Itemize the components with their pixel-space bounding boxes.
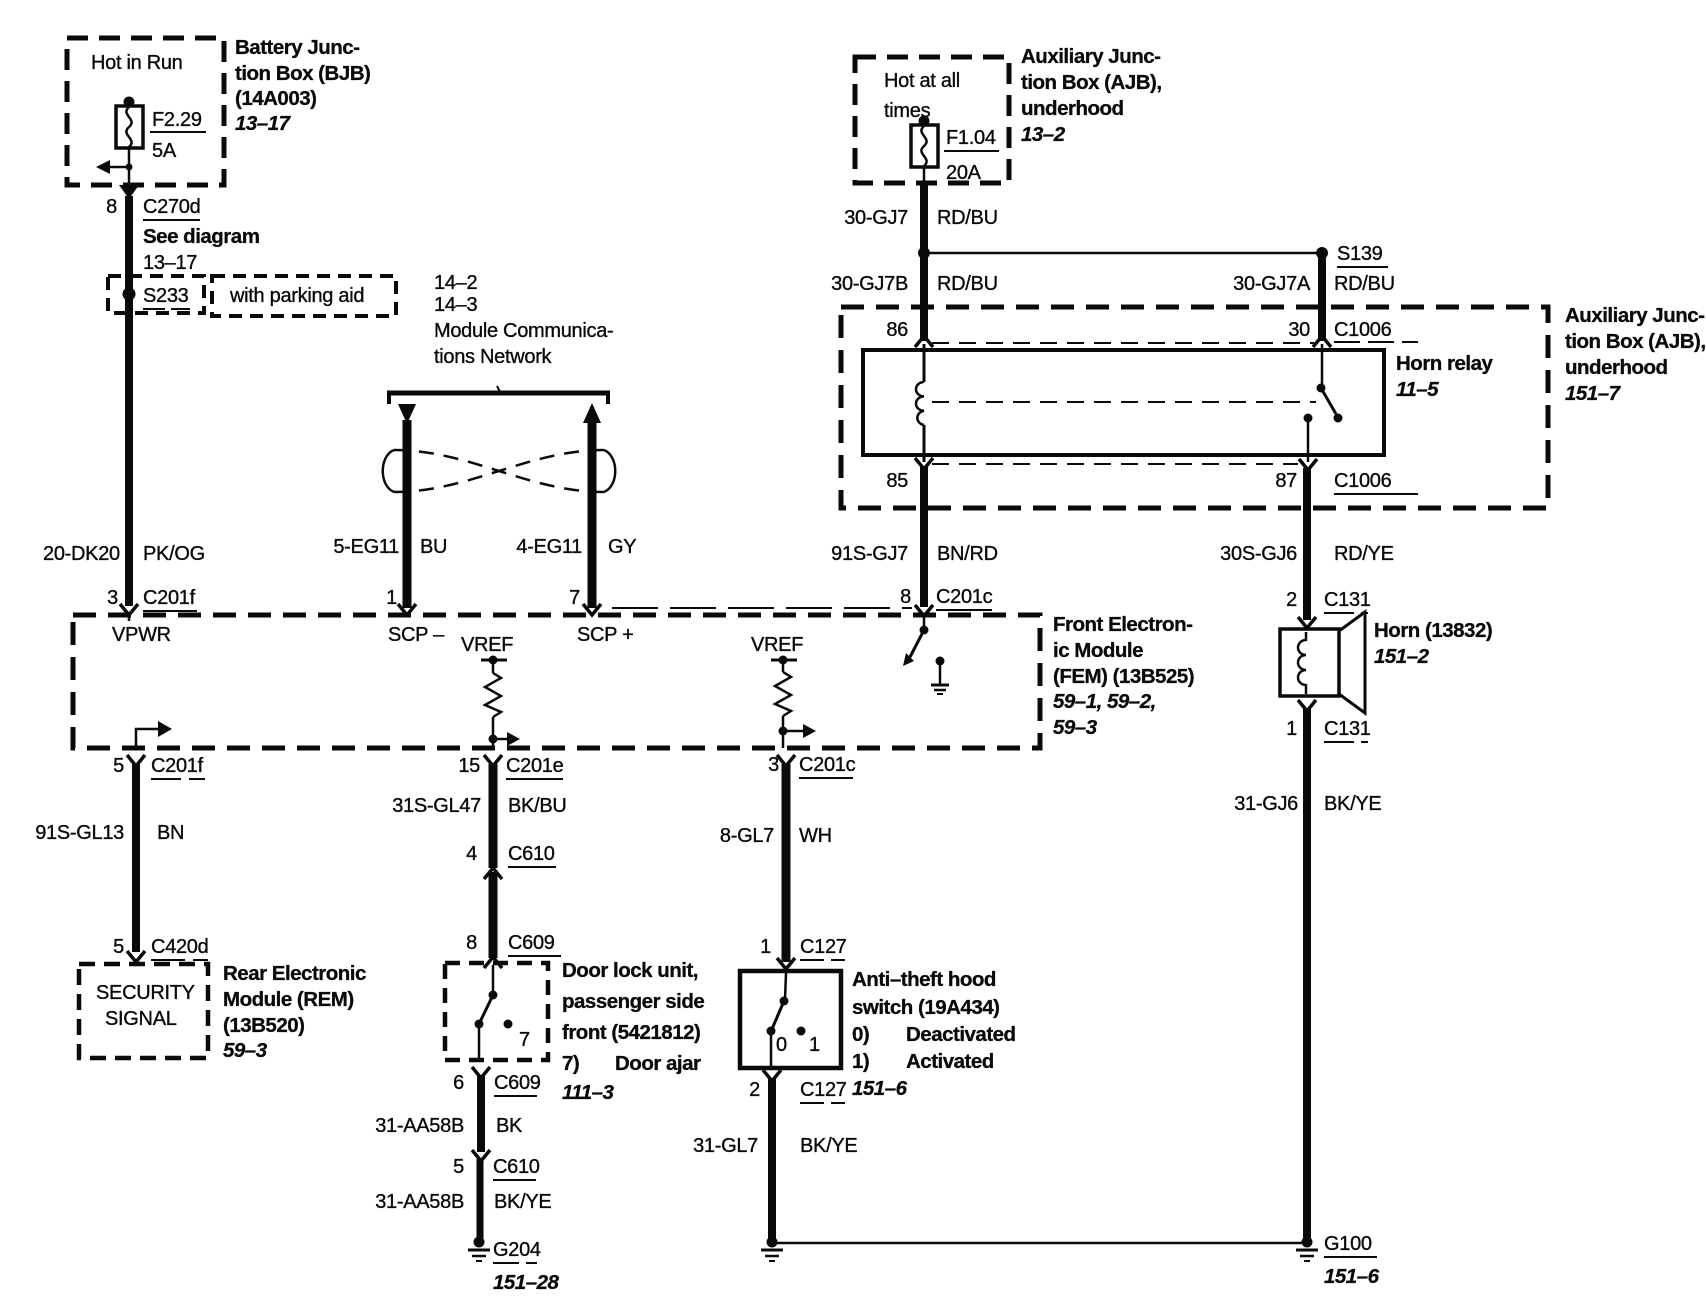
rear electronic module REM dashed box: [79, 964, 208, 1058]
svg-text:8-GL7: 8-GL7: [720, 825, 774, 847]
chevron down pin 85: [915, 458, 933, 469]
wire 31-GJ6 BK/YE: [1303, 709, 1311, 1240]
svg-text:Activated: Activated: [906, 1050, 994, 1073]
svg-text:Rear Electronic: Rear Electronic: [223, 962, 366, 985]
svg-text:Hot at all: Hot at all: [884, 70, 960, 92]
svg-text:59–1, 59–2,: 59–1, 59–2,: [1053, 690, 1156, 713]
svg-text:2: 2: [749, 1079, 760, 1101]
internal output arrow right: [779, 727, 788, 736]
svg-text:tion Box (BJB): tion Box (BJB): [235, 62, 370, 85]
svg-text:3: 3: [107, 587, 118, 609]
svg-text:RD/YE: RD/YE: [1334, 543, 1394, 565]
svg-text:59–3: 59–3: [1053, 716, 1098, 739]
svg-text:VREF: VREF: [461, 634, 513, 656]
svg-text:7): 7): [562, 1052, 579, 1075]
svg-text:F1.04: F1.04: [946, 127, 996, 149]
svg-text:SCP +: SCP +: [577, 624, 634, 646]
splice junction node: [918, 247, 930, 259]
chevron into hood switch pin 1: [777, 958, 795, 969]
svg-text:5-EG11: 5-EG11: [333, 536, 399, 558]
svg-text:BN: BN: [157, 822, 184, 844]
svg-text:111–3: 111–3: [562, 1081, 615, 1104]
twisted pair symbol: [383, 450, 616, 492]
svg-text:C131: C131: [1324, 589, 1371, 611]
svg-text:F2.29: F2.29: [152, 109, 202, 131]
svg-text:151–28: 151–28: [493, 1271, 560, 1294]
svg-text:Auxiliary Junc-: Auxiliary Junc-: [1565, 304, 1704, 327]
wire 31S-GL47 BK/BU: [489, 764, 498, 868]
FEM internal stub to pin 5 with arrow: [136, 729, 158, 748]
svg-text:RD/BU: RD/BU: [1334, 273, 1395, 295]
FEM internal ground: [931, 657, 949, 695]
ground at hood switch: [761, 1237, 783, 1262]
svg-text:C1006: C1006: [1334, 470, 1392, 492]
svg-text:8: 8: [466, 932, 477, 954]
svg-text:5: 5: [113, 755, 124, 777]
svg-text:C610: C610: [508, 843, 555, 865]
svg-text:15: 15: [458, 755, 480, 777]
svg-text:Module Communica-: Module Communica-: [434, 320, 613, 342]
resistor VREF pull-up right: [771, 656, 797, 749]
wire 8-GL7 WH: [782, 764, 791, 962]
FEM internal switch from pin 8: [920, 626, 929, 635]
relay coil linkage dashed: [932, 401, 1316, 403]
chevron into FEM pin 1: [398, 604, 416, 615]
relay contact to pin 87: [1304, 414, 1313, 423]
svg-text:151–6: 151–6: [852, 1077, 908, 1100]
svg-text:Door ajar: Door ajar: [615, 1052, 701, 1075]
svg-text:ic Module: ic Module: [1053, 639, 1143, 662]
svg-text:C131: C131: [1324, 718, 1371, 740]
svg-text:C201c: C201c: [799, 754, 856, 776]
svg-text:(13B520): (13B520): [223, 1014, 304, 1037]
svg-text:VREF: VREF: [751, 634, 803, 656]
svg-text:Battery Junc-: Battery Junc-: [235, 36, 360, 59]
svg-text:See diagram: See diagram: [143, 225, 259, 248]
svg-text:14–2: 14–2: [434, 272, 477, 294]
svg-text:31S-GL47: 31S-GL47: [392, 795, 481, 817]
connector arrow into wire at pin 8: [119, 185, 139, 199]
svg-text:G100: G100: [1324, 1233, 1372, 1255]
splice S139: [1316, 247, 1328, 259]
horn relay solid box: [863, 350, 1384, 455]
chevron out of hood switch pin 2: [763, 1070, 781, 1081]
svg-text:underhood: underhood: [1021, 97, 1124, 120]
chevron into FEM pin 3: [120, 604, 138, 615]
svg-text:0: 0: [776, 1034, 787, 1056]
relay internal dashed link upper: [932, 342, 1314, 344]
svg-text:BK/YE: BK/YE: [1324, 793, 1381, 815]
wire 20-DK20 left column: [125, 196, 133, 606]
svg-text:BK/BU: BK/BU: [508, 795, 567, 817]
svg-text:151–7: 151–7: [1565, 382, 1622, 405]
svg-text:1): 1): [852, 1050, 869, 1073]
svg-text:1: 1: [760, 936, 771, 958]
svg-text:13–17: 13–17: [235, 112, 292, 135]
chevron out of FEM pin 3: [777, 755, 795, 766]
svg-text:switch (19A434): switch (19A434): [852, 996, 999, 1019]
svg-text:S139: S139: [1337, 243, 1383, 265]
network bus bar bracket: [387, 386, 610, 404]
relay switch arm: [1321, 388, 1336, 414]
svg-text:1: 1: [1286, 718, 1297, 740]
svg-text:C201c: C201c: [936, 586, 993, 608]
svg-text:8: 8: [106, 196, 117, 218]
chevron up pin 86: [915, 336, 933, 347]
chevron into C610 pin 5: [472, 1150, 490, 1161]
svg-text:SCP –: SCP –: [388, 624, 445, 646]
svg-text:BU: BU: [420, 536, 447, 558]
svg-text:tion Box (AJB),: tion Box (AJB),: [1565, 330, 1706, 353]
svg-text:tions Network: tions Network: [434, 346, 553, 368]
svg-text:BK: BK: [496, 1115, 523, 1137]
svg-text:with parking aid: with parking aid: [229, 285, 364, 307]
svg-text:2: 2: [1286, 589, 1297, 611]
svg-text:30S-GJ6: 30S-GJ6: [1220, 543, 1297, 565]
svg-text:GY: GY: [608, 536, 636, 558]
svg-text:VPWR: VPWR: [112, 624, 171, 646]
auxiliary junction box fuse dashed enclosure: [855, 57, 1009, 183]
wire 31-AA58B BK: [477, 1076, 485, 1152]
svg-text:151–2: 151–2: [1374, 645, 1430, 668]
wire 91S-GL13 BN: [132, 764, 140, 952]
svg-text:30-GJ7: 30-GJ7: [844, 207, 908, 229]
svg-text:91S-GJ7: 91S-GJ7: [831, 543, 908, 565]
svg-text:Hot in Run: Hot in Run: [91, 52, 183, 74]
svg-text:86: 86: [886, 319, 908, 341]
svg-text:C270d: C270d: [143, 196, 200, 218]
chevron out of FEM pin 5: [127, 755, 145, 766]
arrow tap to left inside BJB: [106, 166, 129, 169]
svg-text:30-GJ7B: 30-GJ7B: [831, 273, 908, 295]
ground G100: [1296, 1237, 1318, 1262]
door lock switch contacts: [475, 965, 513, 1060]
svg-text:31-AA58B: 31-AA58B: [375, 1191, 464, 1213]
svg-text:front (5421812): front (5421812): [562, 1021, 700, 1044]
ground G204: [468, 1237, 490, 1262]
svg-text:WH: WH: [799, 825, 832, 847]
svg-text:7: 7: [519, 1029, 530, 1051]
svg-text:31-GJ6: 31-GJ6: [1234, 793, 1298, 815]
svg-text:tion Box (AJB),: tion Box (AJB),: [1021, 71, 1162, 94]
svg-text:1: 1: [809, 1034, 820, 1056]
svg-text:11–5: 11–5: [1396, 378, 1439, 401]
svg-text:8: 8: [900, 586, 911, 608]
svg-text:Front Electron-: Front Electron-: [1053, 613, 1192, 636]
chevron down pin 87: [1299, 459, 1317, 470]
ground bus wire: [772, 1242, 1302, 1245]
svg-text:13–17: 13–17: [143, 252, 197, 274]
wire 30S-GJ6 RD/YE: [1303, 468, 1311, 620]
chevron out of door lock pin 6: [472, 1067, 490, 1078]
wire 4-EG11 SCP+ with up arrow: [583, 403, 601, 423]
svg-text:13–2: 13–2: [1021, 123, 1066, 146]
svg-text:5: 5: [113, 936, 124, 958]
chevron out of horn pin 1: [1298, 700, 1316, 711]
relay internal dashed link lower: [932, 463, 1298, 465]
svg-text:59–3: 59–3: [223, 1039, 268, 1062]
svg-text:C201f: C201f: [151, 755, 204, 777]
svg-text:C201f: C201f: [143, 587, 196, 609]
fuse F2.29 5A: [116, 97, 143, 197]
chevron up into C610 pin 4: [484, 868, 502, 879]
chevron into FEM pin 7: [583, 604, 601, 615]
svg-text:Horn (13832): Horn (13832): [1374, 619, 1492, 642]
relay coil: [916, 344, 924, 462]
svg-text:C609: C609: [494, 1072, 541, 1094]
door lock unit dashed box: [445, 963, 548, 1060]
svg-text:20-DK20: 20-DK20: [43, 543, 120, 565]
chevron out of FEM pin 15: [484, 755, 502, 766]
wire 91S-GJ7 BN/RD: [920, 467, 928, 607]
auxiliary junction box AJB dashed enclosure: [841, 307, 1548, 508]
svg-text:SECURITY: SECURITY: [96, 982, 195, 1004]
resistor VREF pull-up left: [481, 656, 507, 749]
wire C610 to C609: [489, 872, 498, 958]
svg-text:Horn relay: Horn relay: [1396, 352, 1493, 375]
svg-text:RD/BU: RD/BU: [937, 273, 998, 295]
svg-text:C127: C127: [800, 1079, 847, 1101]
svg-text:BK/YE: BK/YE: [494, 1191, 551, 1213]
svg-text:RD/BU: RD/BU: [937, 207, 998, 229]
svg-text:Door lock unit,: Door lock unit,: [562, 959, 698, 982]
svg-text:7: 7: [569, 587, 580, 609]
svg-text:1: 1: [386, 587, 397, 609]
battery junction box BJB dashed enclosure: [67, 38, 224, 185]
svg-text:87: 87: [1275, 470, 1297, 492]
svg-text:C610: C610: [493, 1156, 540, 1178]
horn 13832 symbol: [1280, 612, 1365, 713]
svg-text:C201e: C201e: [506, 755, 564, 777]
svg-text:Module (REM): Module (REM): [223, 988, 354, 1011]
chevron into REM pin 5: [127, 951, 145, 962]
hood switch contacts: [767, 973, 806, 1068]
chevron up pin 30: [1313, 336, 1331, 347]
svg-text:G204: G204: [493, 1239, 541, 1261]
svg-text:14–3: 14–3: [434, 294, 477, 316]
svg-text:20A: 20A: [946, 162, 982, 184]
chevron into FEM pin 8: [915, 605, 933, 616]
svg-text:4: 4: [466, 843, 477, 865]
svg-text:PK/OG: PK/OG: [143, 543, 205, 565]
wire 31-AA58B BK/YE: [477, 1159, 484, 1240]
splice S233 dashed box: [108, 276, 204, 313]
svg-text:0): 0): [852, 1023, 869, 1046]
svg-text:5: 5: [453, 1156, 464, 1178]
wire 31-GL7 BK/YE: [768, 1079, 776, 1240]
svg-text:31-AA58B: 31-AA58B: [375, 1115, 464, 1137]
svg-text:C1006: C1006: [1334, 319, 1392, 341]
chevron into horn pin 2: [1298, 617, 1316, 628]
svg-text:BK/YE: BK/YE: [800, 1135, 857, 1157]
wire 30-GJ7: [920, 183, 928, 341]
svg-text:151–6: 151–6: [1324, 1265, 1380, 1288]
svg-text:30: 30: [1288, 319, 1310, 341]
internal output arrow left: [489, 735, 498, 744]
svg-text:85: 85: [886, 470, 908, 492]
svg-text:passenger side: passenger side: [562, 990, 704, 1013]
svg-text:C127: C127: [800, 936, 847, 958]
svg-text:C420d: C420d: [151, 936, 208, 958]
svg-text:C609: C609: [508, 932, 555, 954]
svg-text:91S-GL13: 91S-GL13: [35, 822, 124, 844]
svg-text:4-EG11: 4-EG11: [516, 536, 582, 558]
thin dashed continuation above FEM border: [612, 607, 912, 609]
svg-text:Anti–theft hood: Anti–theft hood: [852, 968, 996, 991]
svg-text:S233: S233: [143, 285, 189, 307]
svg-text:31-GL7: 31-GL7: [693, 1135, 758, 1157]
wire 5-EG11 SCP- with down arrow: [398, 404, 416, 424]
option tag with parking aid: [212, 276, 396, 316]
fuse F1.04 20A: [911, 116, 938, 184]
svg-text:5A: 5A: [152, 140, 177, 162]
svg-text:BN/RD: BN/RD: [937, 543, 998, 565]
svg-text:SIGNAL: SIGNAL: [105, 1008, 177, 1030]
svg-text:Deactivated: Deactivated: [906, 1023, 1016, 1046]
svg-text:6: 6: [453, 1072, 464, 1094]
wire 30-GJ7A down from S139: [1318, 253, 1326, 341]
wire to S139: [924, 252, 1322, 255]
front electronic module FEM dashed enclosure: [73, 615, 1040, 748]
relay switch contact from pin 30: [1321, 344, 1324, 387]
svg-text:30-GJ7A: 30-GJ7A: [1233, 273, 1311, 295]
svg-text:(FEM) (13B525): (FEM) (13B525): [1053, 665, 1194, 688]
anti-theft hood switch box: [740, 971, 841, 1068]
svg-text:(14A003): (14A003): [235, 87, 316, 110]
svg-text:Auxiliary Junc-: Auxiliary Junc-: [1021, 45, 1160, 68]
chevron up into C609 pin 8: [484, 957, 502, 968]
svg-text:underhood: underhood: [1565, 356, 1668, 379]
